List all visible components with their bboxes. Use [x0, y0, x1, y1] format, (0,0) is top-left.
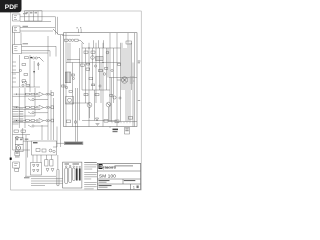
pin 2 tick	[77, 27, 79, 32]
bus wire	[31, 180, 63, 182]
label RL05	[113, 129, 119, 133]
wire	[44, 106, 46, 108]
resistor R2	[22, 80, 26, 82]
resistor R13	[84, 51, 88, 53]
wire	[85, 48, 87, 103]
resistor R36	[118, 64, 121, 66]
label Masse	[24, 177, 30, 178]
wire	[82, 120, 117, 122]
wire	[82, 47, 121, 49]
wire	[22, 50, 51, 52]
capacitor C14	[65, 166, 68, 184]
resistor R11	[65, 39, 69, 41]
switch S3	[80, 40, 84, 44]
wire	[116, 33, 118, 127]
wire	[13, 122, 40, 124]
wire	[77, 88, 79, 142]
meter M1	[15, 144, 23, 151]
wire	[60, 35, 62, 147]
resistor R38	[110, 95, 113, 97]
wire	[20, 33, 22, 45]
capacitor C26	[94, 65, 96, 67]
wire	[46, 155, 48, 160]
wire	[12, 72, 20, 74]
wire	[14, 93, 26, 95]
wire	[95, 43, 97, 103]
potentiometer	[50, 93, 54, 96]
wire	[129, 122, 131, 124]
drawing frame border	[11, 11, 142, 190]
capacitor C25	[19, 69, 21, 71]
op-amp U1	[39, 92, 44, 97]
diode D4	[51, 169, 54, 172]
pin 3 tick	[80, 27, 81, 32]
capacitor	[46, 93, 50, 95]
capacitor	[32, 99, 34, 101]
wire	[55, 17, 57, 27]
resistor R37	[92, 84, 95, 86]
capacitor C7	[106, 51, 109, 54]
wire	[109, 127, 111, 129]
capacitor C5	[16, 136, 19, 139]
wire	[102, 43, 104, 127]
wire	[107, 48, 109, 78]
resistor R10	[21, 130, 26, 132]
relay K1	[15, 138, 23, 145]
capacitor C10	[53, 150, 55, 152]
node	[16, 107, 17, 108]
resistor R21	[36, 149, 40, 152]
wire	[127, 33, 129, 122]
transistor Q6	[113, 96, 116, 99]
wire	[99, 48, 101, 90]
wire	[35, 120, 37, 122]
wire	[117, 122, 119, 124]
node	[89, 48, 90, 49]
capacitor	[46, 107, 50, 109]
wire	[25, 175, 56, 177]
title block divider	[130, 184, 132, 190]
wire	[82, 89, 110, 91]
label BU1	[23, 26, 29, 27]
title SM 100	[99, 173, 116, 178]
wire	[44, 120, 46, 122]
wire	[100, 63, 102, 104]
wire	[109, 33, 111, 122]
resistor R19	[126, 41, 132, 44]
capacitor	[36, 120, 38, 122]
node	[16, 94, 17, 95]
wire	[57, 142, 65, 144]
terminal labels	[20, 109, 24, 122]
terminal stubs	[13, 62, 17, 82]
terminal list	[13, 107, 19, 125]
label	[23, 13, 27, 14]
resistor R33	[24, 74, 28, 76]
resistor R30	[62, 85, 66, 87]
wire	[22, 45, 57, 47]
wire	[53, 98, 55, 140]
wire	[29, 106, 31, 108]
wire	[31, 57, 34, 59]
label	[130, 77, 135, 84]
resistor R17	[84, 94, 88, 96]
wire	[66, 62, 121, 64]
wire	[34, 88, 36, 116]
resistor R16	[86, 68, 90, 70]
wire	[29, 93, 31, 95]
wire	[79, 48, 81, 121]
resistor R34	[87, 63, 90, 65]
wire	[41, 125, 43, 140]
capacitor	[32, 112, 34, 114]
title block row line	[98, 183, 141, 185]
relay RL05	[125, 128, 130, 135]
wire	[114, 122, 116, 124]
wire	[55, 27, 57, 35]
wire	[34, 99, 48, 101]
logo Dynacord	[99, 164, 116, 169]
wire	[13, 95, 40, 97]
wire	[126, 122, 128, 124]
IC U4	[96, 57, 104, 61]
wire	[20, 26, 55, 28]
wire	[27, 141, 29, 157]
capacitor C22	[65, 86, 67, 88]
meter M2	[66, 97, 74, 105]
wire	[132, 63, 134, 127]
resistor R22	[42, 149, 46, 152]
svg-text:PDF: PDF	[5, 4, 18, 11]
potentiometer	[50, 106, 54, 109]
resistor	[31, 93, 35, 95]
wire	[24, 88, 26, 128]
wire	[121, 43, 123, 90]
resistor R20	[15, 152, 20, 156]
resistor R28	[129, 117, 133, 120]
cell text	[99, 185, 112, 188]
switch	[28, 125, 32, 127]
wire	[125, 48, 127, 122]
resistor R1	[25, 57, 29, 59]
wire	[92, 48, 94, 90]
title block divider	[122, 179, 124, 184]
bus wire	[31, 182, 63, 184]
node	[16, 120, 17, 121]
capacitor C12	[50, 160, 53, 167]
title block row line	[98, 170, 141, 172]
label BU2	[23, 43, 29, 44]
wire	[55, 46, 57, 56]
resistor R24	[89, 78, 93, 80]
wire	[53, 146, 57, 148]
wire	[40, 155, 42, 163]
resistor R12	[75, 39, 79, 41]
wire	[14, 106, 26, 108]
capacitor C1	[32, 57, 37, 59]
capacitor C27	[111, 69, 113, 71]
resistor	[26, 106, 30, 108]
label M-B	[25, 139, 29, 140]
capacitor C23	[37, 62, 39, 70]
transistor Q4	[106, 102, 111, 107]
wire	[132, 122, 134, 124]
wire	[35, 93, 37, 95]
wire	[47, 36, 49, 140]
wire	[108, 107, 110, 121]
wire	[108, 121, 137, 123]
resistor	[26, 93, 30, 95]
fuse box FU	[32, 141, 57, 155]
relay K2	[25, 11, 43, 21]
resistor R26	[104, 120, 108, 123]
capacitor C20	[74, 121, 77, 124]
capacitor	[36, 93, 38, 95]
wire	[44, 93, 46, 95]
wire	[66, 102, 90, 104]
wire	[20, 21, 51, 23]
capacitor C15	[69, 165, 72, 182]
capacitor	[46, 120, 50, 122]
wire	[23, 140, 31, 142]
label	[65, 163, 80, 164]
wire	[50, 90, 52, 140]
capacitor C6	[69, 39, 74, 41]
wire	[98, 40, 100, 48]
resistor R35	[105, 68, 108, 70]
wire	[62, 34, 80, 36]
cell text	[124, 180, 136, 181]
wire	[81, 43, 83, 90]
capacitor C2	[25, 81, 27, 83]
net label bar	[64, 142, 83, 145]
wire	[31, 184, 45, 186]
wire	[111, 78, 113, 122]
wire	[131, 43, 133, 90]
wire	[67, 58, 80, 60]
wire	[57, 155, 59, 169]
wire	[49, 51, 51, 57]
capacitor C16	[73, 166, 76, 181]
bridge rectifier GR1	[31, 163, 42, 176]
svg-text:SM 100: SM 100	[99, 173, 116, 178]
resistor R32	[22, 64, 26, 66]
connector J3	[13, 45, 22, 54]
wire	[78, 39, 80, 41]
wire	[69, 43, 71, 63]
svg-text:1: 1	[133, 186, 135, 190]
wire	[51, 155, 53, 160]
node	[22, 82, 23, 83]
capacitor C13	[57, 169, 59, 186]
wire	[56, 127, 58, 148]
wire	[88, 43, 90, 127]
resistor	[26, 120, 30, 122]
node	[10, 158, 12, 160]
diode D2	[96, 118, 99, 121]
capacitor C29	[119, 97, 121, 99]
wire	[120, 122, 122, 124]
wire	[34, 125, 48, 127]
wire	[65, 33, 67, 127]
cell text	[133, 186, 139, 190]
notes text	[84, 162, 97, 189]
capacitor C21	[73, 78, 75, 80]
wire	[72, 63, 74, 127]
diode D3	[46, 169, 49, 172]
capacitor C9	[49, 149, 52, 152]
wire	[13, 108, 40, 110]
capacitor	[36, 106, 38, 108]
wire	[29, 120, 31, 122]
wire	[89, 107, 91, 118]
connector J0	[13, 14, 21, 21]
resistor R29	[72, 74, 75, 76]
switch S2	[39, 57, 44, 62]
transistor Q3	[87, 103, 92, 108]
resistor R23	[99, 70, 103, 72]
label	[15, 156, 20, 157]
resistor	[31, 106, 35, 108]
wire	[120, 43, 122, 122]
diode D1	[33, 61, 35, 87]
cell text	[99, 180, 110, 183]
resistor R25	[67, 120, 71, 123]
wire	[18, 88, 20, 128]
wire	[109, 77, 137, 79]
op-amp U2	[39, 105, 44, 110]
wire	[35, 106, 37, 108]
switch S1	[53, 29, 59, 35]
switch	[28, 99, 32, 101]
wire	[36, 155, 38, 163]
resistor R39	[69, 91, 72, 93]
wire	[106, 48, 108, 90]
wire	[94, 90, 96, 121]
wire	[25, 135, 27, 176]
capacitor C19	[103, 73, 105, 75]
wire	[34, 112, 48, 114]
transistor Q1	[30, 57, 32, 59]
wire	[18, 55, 20, 87]
wire	[75, 88, 77, 142]
title block outline	[98, 163, 141, 189]
svg-text:D: D	[99, 164, 102, 169]
wire	[103, 40, 105, 48]
wire	[13, 134, 31, 136]
wire	[20, 30, 53, 32]
transistor Q5	[121, 77, 127, 83]
resistor R9	[14, 130, 19, 132]
bus wire	[31, 178, 63, 180]
wire	[113, 48, 115, 103]
switch	[28, 112, 32, 114]
label 0	[81, 142, 82, 144]
wire	[67, 43, 69, 63]
svg-text:ynacord: ynacord	[103, 165, 116, 169]
resistor R18	[95, 94, 99, 96]
capacitor block outline	[63, 162, 82, 188]
capacitor C18	[79, 166, 81, 180]
wire	[67, 39, 70, 41]
wire	[111, 122, 113, 124]
capacitor C28	[99, 85, 101, 87]
capacitor	[32, 125, 34, 127]
wire	[29, 55, 31, 92]
potentiometer	[50, 119, 54, 122]
resistor	[31, 120, 35, 122]
node	[103, 62, 104, 63]
label	[138, 61, 141, 64]
transistor Q2	[91, 56, 95, 60]
capacitor C24	[22, 84, 24, 86]
wire	[14, 120, 26, 122]
PDF badge	[0, 0, 22, 12]
resistor R14	[91, 51, 95, 53]
capacitor C11	[45, 160, 48, 167]
title block row line	[98, 178, 141, 180]
ground	[96, 124, 100, 126]
wire	[123, 48, 125, 90]
wire	[12, 86, 40, 88]
wire	[117, 79, 121, 81]
wire	[57, 17, 59, 35]
wire	[123, 122, 125, 124]
switch S4	[13, 162, 19, 168]
wire	[13, 115, 36, 117]
amplifier board outline	[64, 33, 138, 127]
wire	[22, 52, 49, 54]
resistor R15	[81, 64, 85, 66]
capacitor C8	[15, 169, 19, 172]
left section border	[13, 27, 31, 150]
resistor R27	[115, 120, 119, 123]
wire	[129, 43, 131, 122]
wire	[93, 40, 95, 48]
wire	[38, 57, 40, 59]
wire	[134, 33, 136, 127]
connector X1	[65, 72, 70, 83]
op-amp U3	[39, 118, 44, 123]
wire	[20, 16, 56, 18]
logo tagline	[115, 165, 134, 166]
wire	[59, 34, 64, 36]
wire	[32, 155, 34, 163]
wire	[13, 33, 15, 45]
wire	[22, 128, 24, 140]
capacitor C17	[76, 166, 78, 180]
label	[138, 100, 140, 101]
connector J2	[13, 26, 20, 33]
resistor R31	[26, 84, 30, 86]
